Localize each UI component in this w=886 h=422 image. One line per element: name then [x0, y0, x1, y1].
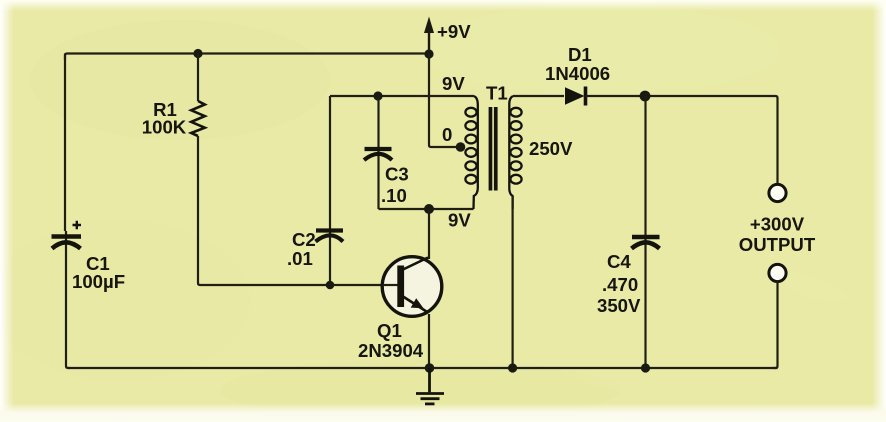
svg-text:1N4006: 1N4006 [545, 63, 610, 84]
resistor R1 [142, 54, 205, 138]
svg-text:OUTPUT: OUTPUT [739, 234, 816, 255]
svg-text:250V: 250V [529, 138, 573, 159]
transformer T1 primary winding [465, 96, 477, 209]
wire emitter [428, 314, 430, 368]
capacitor C4 [597, 96, 660, 368]
svg-text:C4: C4 [607, 251, 631, 272]
wire top rail [65, 54, 429, 61]
svg-text:.470: .470 [602, 274, 638, 295]
wire oscillator bottom 9V [379, 209, 474, 231]
svg-text:.01: .01 [287, 248, 313, 269]
svg-text:D1: D1 [568, 44, 592, 65]
transformer T1 core [486, 83, 508, 191]
svg-text:T1: T1 [486, 83, 508, 104]
ground [416, 368, 444, 404]
wire left rail [64, 54, 66, 232]
wire bottom rail [68, 367, 778, 369]
node +9V junction [424, 49, 433, 58]
wire lower terminal to bottom rail [773, 282, 778, 369]
node secondary bottom junction [508, 363, 517, 372]
node C4 top junction [640, 91, 651, 102]
power +9V arrow [424, 17, 471, 55]
svg-text:9V: 9V [448, 210, 471, 231]
svg-text:9V: 9V [442, 73, 465, 94]
capacitor C2 [287, 96, 343, 285]
wire diode to output corner [586, 96, 778, 184]
diode D1 [545, 44, 610, 106]
svg-text:Q1: Q1 [377, 320, 402, 341]
svg-text:2N3904: 2N3904 [358, 340, 424, 361]
svg-text:100K: 100K [142, 117, 187, 138]
svg-text:350V: 350V [597, 295, 641, 316]
transformer T1 secondary winding [509, 96, 573, 209]
wire +9V drop to center tap [429, 54, 460, 147]
svg-text:+9V: +9V [437, 21, 471, 42]
output terminal upper [769, 184, 786, 201]
node R1 top junction [193, 49, 202, 58]
svg-text:0: 0 [442, 124, 452, 145]
wire collector [428, 209, 430, 259]
node base junction [326, 281, 335, 290]
node emitter junction [425, 363, 435, 373]
capacitor C1 [52, 221, 126, 292]
svg-text:C3: C3 [385, 164, 409, 185]
capacitor C3 [364, 96, 409, 209]
node center tap 0 [442, 124, 465, 152]
node C3 top junction [373, 91, 382, 100]
node C4 bottom junction [641, 363, 650, 372]
svg-text:100µF: 100µF [72, 271, 125, 292]
transistor Q1 [358, 257, 442, 361]
wire secondary to bottom rail [511, 196, 513, 368]
node collector junction [424, 204, 434, 214]
wire secondary top to diode [513, 95, 564, 97]
svg-text:.10: .10 [381, 185, 407, 206]
output terminal lower [769, 264, 786, 281]
svg-text:+300V: +300V [750, 214, 805, 235]
label +300V OUTPUT [739, 214, 816, 256]
wire left rail lower [66, 253, 70, 368]
wire R1 to base node [198, 136, 396, 285]
svg-text:C2: C2 [292, 229, 316, 250]
wire oscillator top 9V [330, 73, 474, 96]
